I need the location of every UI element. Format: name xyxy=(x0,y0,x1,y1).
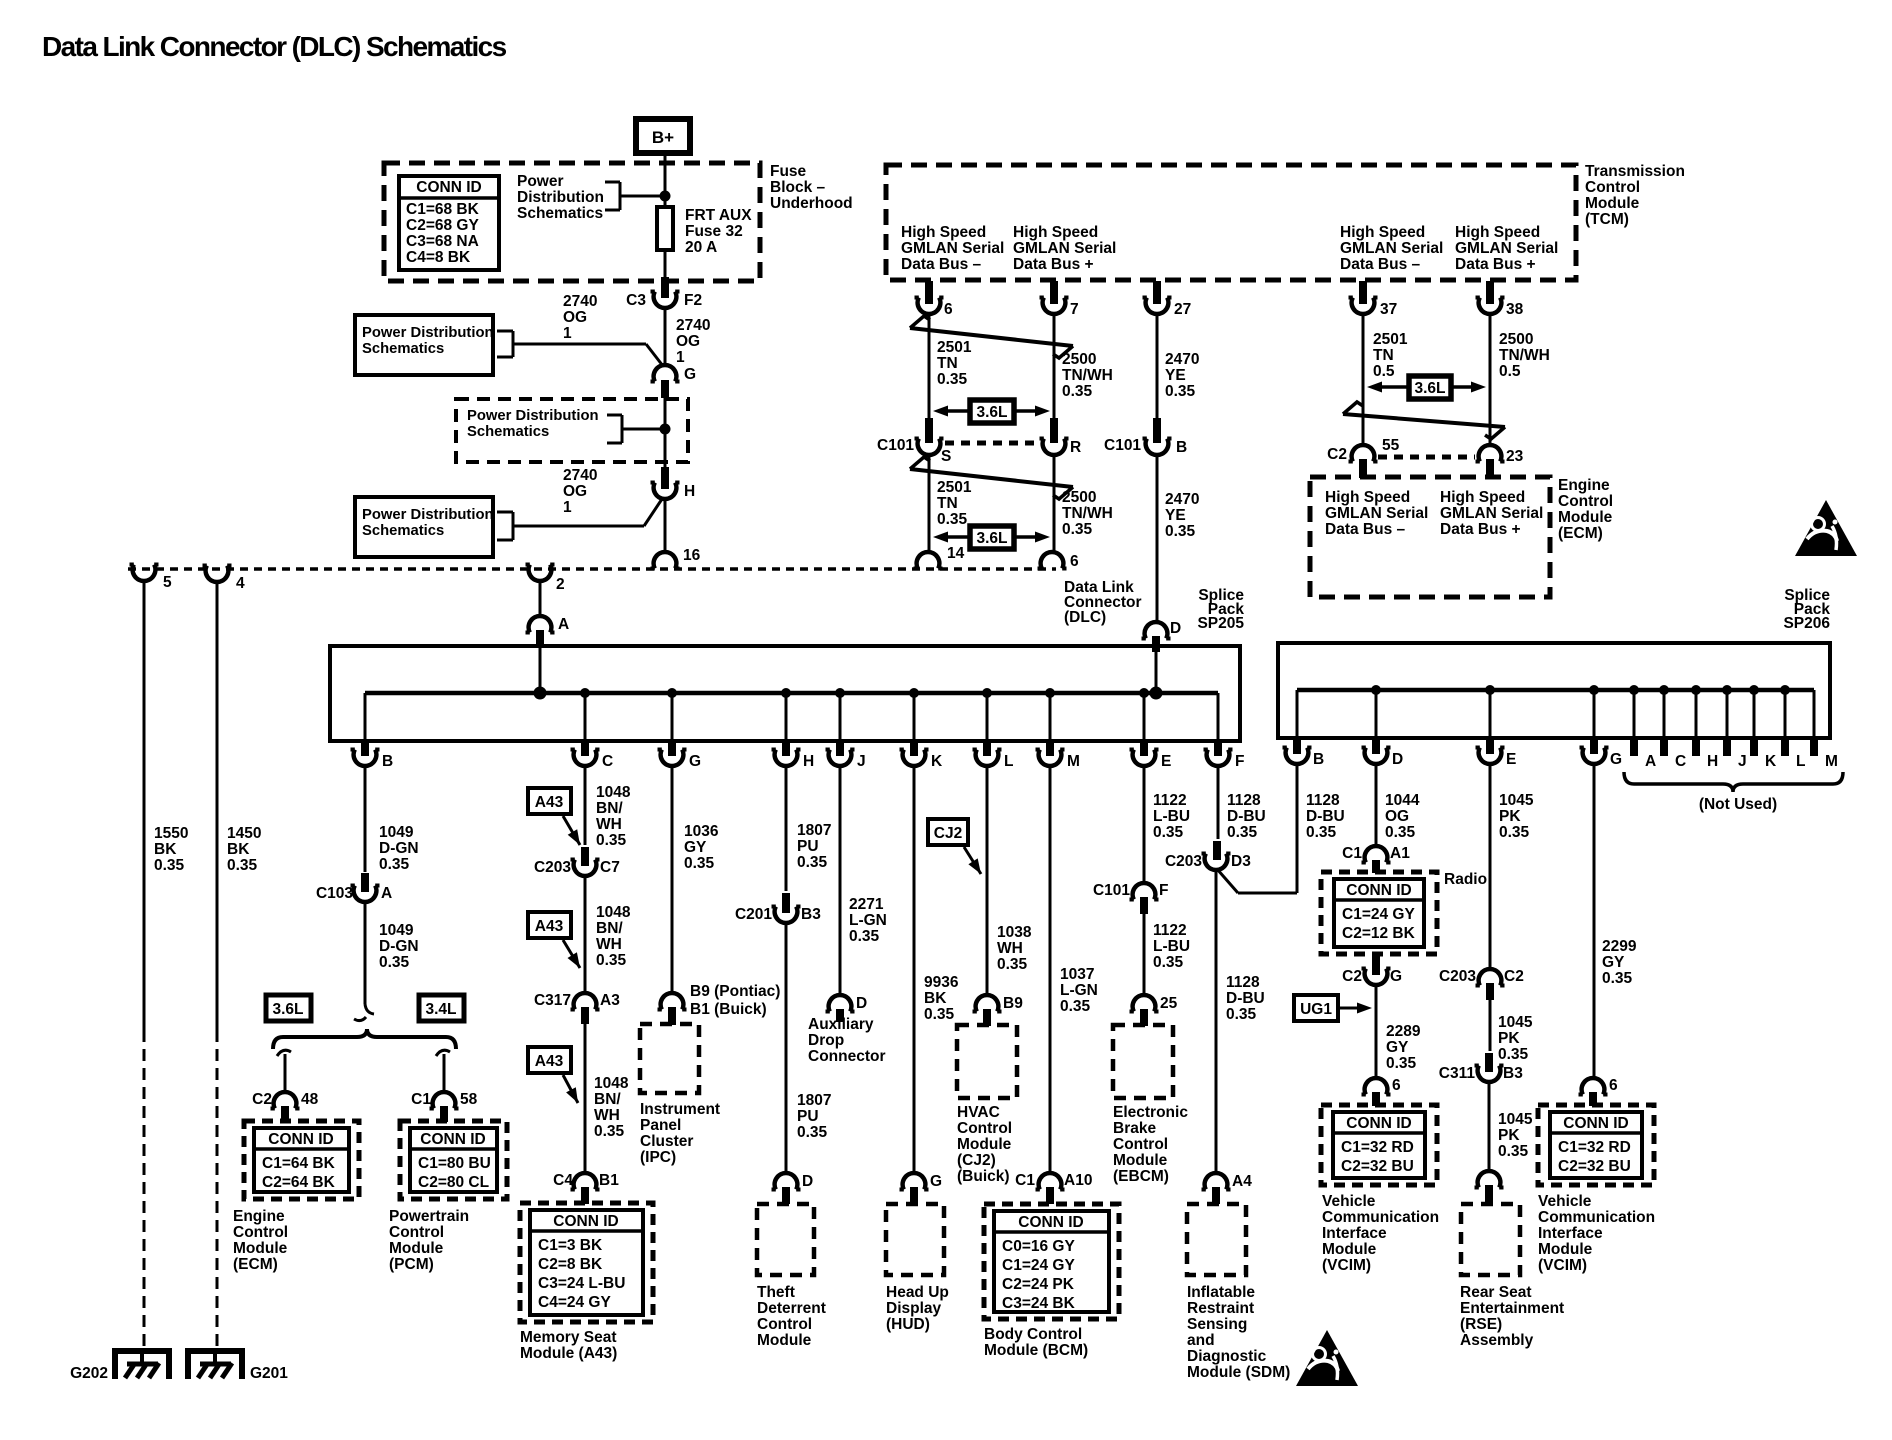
svg-text:C2: C2 xyxy=(1504,968,1524,985)
connector C2 pin 55 xyxy=(1327,437,1399,463)
svg-text:3.6L: 3.6L xyxy=(976,530,1007,547)
connector C101 pin S xyxy=(877,437,951,465)
C101 mating dashed line xyxy=(945,441,1040,446)
svg-text:0.35: 0.35 xyxy=(1498,1046,1529,1063)
connector G HUD xyxy=(900,1173,943,1204)
svg-text:Rear Seat: Rear Seat xyxy=(1460,1284,1532,1301)
svg-text:C0=16 GY: C0=16 GY xyxy=(1002,1238,1075,1255)
svg-text:C2: C2 xyxy=(252,1091,272,1108)
stub above C101 S xyxy=(925,418,933,443)
svg-text:9936: 9936 xyxy=(924,974,959,991)
svg-text:J: J xyxy=(857,753,866,770)
svg-text:0.35: 0.35 xyxy=(1060,998,1091,1015)
svg-text:Module: Module xyxy=(233,1240,288,1257)
SP205 pin H xyxy=(772,693,815,770)
svg-text:C2=32 BU: C2=32 BU xyxy=(1341,1158,1414,1175)
svg-text:C2=32 BU: C2=32 BU xyxy=(1558,1158,1631,1175)
svg-text:Entertainment: Entertainment xyxy=(1460,1300,1564,1317)
power distribution schematics dashed box xyxy=(456,399,688,462)
svg-text:B: B xyxy=(1313,751,1324,768)
connector C103 pin A xyxy=(316,885,392,902)
svg-text:0.35: 0.35 xyxy=(1165,383,1196,400)
splice pack SP206 bus bar xyxy=(1297,685,1814,695)
svg-text:1044: 1044 xyxy=(1385,792,1420,809)
svg-text:(TCM): (TCM) xyxy=(1585,211,1629,228)
svg-text:High Speed: High Speed xyxy=(1325,489,1410,506)
svg-text:C3=24 BK: C3=24 BK xyxy=(1002,1295,1076,1312)
svg-text:PK: PK xyxy=(1498,1030,1520,1047)
svg-text:C: C xyxy=(1675,753,1686,770)
wire label 1807 PU 0.35 b xyxy=(797,1092,831,1141)
svg-text:0.35: 0.35 xyxy=(924,1006,955,1023)
wire label 1038 WH 0.35 xyxy=(997,924,1032,973)
svg-text:CONN ID: CONN ID xyxy=(416,179,481,196)
svg-text:C311: C311 xyxy=(1439,1065,1476,1082)
wire D into SP205 xyxy=(1155,652,1158,693)
svg-text:L: L xyxy=(1796,753,1805,770)
svg-text:and: and xyxy=(1187,1332,1215,1349)
wire 1807 PU seg2 xyxy=(785,921,788,1174)
svg-text:G: G xyxy=(689,753,701,770)
wire 1037 L-GN xyxy=(1049,764,1052,1174)
connector C203 pin D3 xyxy=(1165,853,1251,870)
wire 1048 seg1 xyxy=(584,764,587,866)
svg-text:58: 58 xyxy=(460,1091,478,1108)
svg-text:Module: Module xyxy=(1322,1241,1377,1258)
wire label 2740 OG 1 left xyxy=(563,293,597,342)
svg-text:0.35: 0.35 xyxy=(997,956,1028,973)
svg-text:Transmission: Transmission xyxy=(1585,163,1685,180)
svg-text:1122: 1122 xyxy=(1153,922,1187,939)
svg-text:C2=24 PK: C2=24 PK xyxy=(1002,1276,1075,1293)
connector table memory seat xyxy=(520,1203,653,1322)
svg-text:Memory Seat: Memory Seat xyxy=(520,1329,616,1346)
svg-text:C2: C2 xyxy=(1327,446,1347,463)
svg-text:Inflatable: Inflatable xyxy=(1187,1284,1255,1301)
svg-text:(IPC): (IPC) xyxy=(640,1149,676,1166)
svg-text:C1: C1 xyxy=(411,1091,431,1108)
svg-text:(ECM): (ECM) xyxy=(1558,525,1603,542)
data link connector label xyxy=(1064,579,1142,626)
svg-text:OG: OG xyxy=(676,333,700,350)
svg-text:CONN ID: CONN ID xyxy=(1563,1115,1628,1132)
svg-text:Interface: Interface xyxy=(1538,1225,1603,1242)
svg-text:E: E xyxy=(1506,751,1516,768)
power distribution schematics box 1 xyxy=(355,315,494,375)
engine option box 3.6L b xyxy=(933,526,1050,549)
svg-text:2500: 2500 xyxy=(1499,331,1533,348)
powertrain control module (PCM) label xyxy=(389,1208,469,1273)
SP206 unused pin M xyxy=(1814,690,1838,770)
svg-text:1550: 1550 xyxy=(154,825,188,842)
wire 2271 L-GN xyxy=(839,764,842,996)
svg-text:Panel: Panel xyxy=(640,1117,681,1134)
svg-text:1038: 1038 xyxy=(997,924,1032,941)
svg-text:1128: 1128 xyxy=(1227,792,1261,809)
SP206 unused pin L xyxy=(1785,690,1805,770)
wire 1045 seg1 xyxy=(1489,762,1492,970)
twisted pair crossover 1 xyxy=(910,316,1073,358)
svg-text:Radio: Radio xyxy=(1444,871,1487,888)
splice pack SP206 label xyxy=(1783,587,1830,632)
wire 1045 seg2 xyxy=(1489,1000,1490,1072)
TCM bus + label 2 xyxy=(1013,224,1116,273)
connector D aux xyxy=(826,995,868,1022)
svg-text:Connector: Connector xyxy=(808,1048,886,1065)
svg-text:G: G xyxy=(930,1173,942,1190)
svg-text:(HUD): (HUD) xyxy=(886,1316,930,1333)
svg-text:D-BU: D-BU xyxy=(1306,808,1345,825)
svg-text:YE: YE xyxy=(1165,507,1186,524)
hvac control module dashed box xyxy=(957,1025,1017,1098)
svg-text:UG1: UG1 xyxy=(1300,1001,1332,1018)
svg-text:WH: WH xyxy=(596,936,622,953)
svg-text:1128: 1128 xyxy=(1226,974,1260,991)
svg-text:Schematics: Schematics xyxy=(467,424,549,440)
svg-text:0.35: 0.35 xyxy=(596,952,627,969)
svg-text:CONN ID: CONN ID xyxy=(553,1213,618,1230)
connector C101 pin F xyxy=(1093,882,1169,914)
engine option box 3.6L d xyxy=(266,995,311,1021)
svg-text:M: M xyxy=(1825,753,1838,770)
svg-text:CONN ID: CONN ID xyxy=(420,1131,485,1148)
svg-text:B1: B1 xyxy=(599,1172,619,1189)
svg-text:14: 14 xyxy=(947,545,965,562)
TCM pin 38 stub xyxy=(1486,281,1494,304)
SP206 unused pin K xyxy=(1754,690,1777,770)
svg-text:B: B xyxy=(382,753,393,770)
radio out stub xyxy=(1372,954,1380,975)
inflatable restraint dashed box xyxy=(1187,1204,1246,1275)
svg-text:OG: OG xyxy=(563,483,587,500)
EBCM label xyxy=(1113,1104,1188,1185)
wire label 2470 YE 0.35 b xyxy=(1165,491,1199,540)
svg-text:PU: PU xyxy=(797,838,819,855)
TCM pin 37 stub xyxy=(1359,281,1367,304)
svg-text:High Speed: High Speed xyxy=(1340,224,1425,241)
svg-text:G: G xyxy=(1390,968,1402,985)
svg-text:C101: C101 xyxy=(1093,882,1130,899)
wire label 1122 L-BU 0.35 b xyxy=(1153,922,1190,971)
svg-text:0.35: 0.35 xyxy=(227,857,258,874)
svg-text:3.6L: 3.6L xyxy=(1414,380,1445,397)
svg-text:D: D xyxy=(802,1173,813,1190)
svg-text:Schematics: Schematics xyxy=(517,205,603,222)
svg-text:C4: C4 xyxy=(553,1172,573,1189)
svg-text:1: 1 xyxy=(676,349,685,366)
TCM bus + label 4 xyxy=(1455,224,1558,273)
engine control module (ECM) label xyxy=(233,1208,288,1273)
wire fuse to C3 xyxy=(664,250,667,298)
svg-text:PU: PU xyxy=(797,1108,819,1125)
engine option box 3.4L xyxy=(419,995,464,1021)
connector B9 HVAC xyxy=(973,995,1024,1026)
svg-text:C2: C2 xyxy=(1342,968,1362,985)
svg-text:1045: 1045 xyxy=(1499,792,1534,809)
svg-text:H: H xyxy=(684,483,695,500)
wire label 2271 L-GN 0.35 xyxy=(849,896,887,945)
svg-text:C1: C1 xyxy=(1015,1172,1035,1189)
engine option box 3.6L a xyxy=(933,400,1050,423)
wire label 1128 D-BU 0.35 B xyxy=(1306,792,1345,841)
svg-text:3.4L: 3.4L xyxy=(425,1001,456,1018)
svg-text:0.35: 0.35 xyxy=(1306,824,1337,841)
SP206 unused pin A xyxy=(1634,690,1656,770)
svg-text:High Speed: High Speed xyxy=(1440,489,1525,506)
svg-text:CJ2: CJ2 xyxy=(934,825,962,842)
connector C1 pin 58 xyxy=(411,1091,477,1122)
wire label 2740 OG 1 lower xyxy=(563,467,597,516)
svg-text:1122: 1122 xyxy=(1153,792,1187,809)
svg-text:2470: 2470 xyxy=(1165,491,1199,508)
bracket box1 to wire xyxy=(497,331,663,366)
svg-text:D: D xyxy=(1170,620,1181,637)
svg-text:J: J xyxy=(1738,753,1747,770)
connector C2 pin 48 xyxy=(252,1091,318,1122)
not used label xyxy=(1699,796,1777,813)
svg-text:2740: 2740 xyxy=(563,467,597,484)
svg-text:C1=24 GY: C1=24 GY xyxy=(1002,1257,1075,1274)
wire 2299 GY xyxy=(1593,762,1596,1079)
svg-text:1048: 1048 xyxy=(596,904,631,921)
connector C203 pin C7 xyxy=(534,859,620,876)
svg-text:S: S xyxy=(941,448,951,465)
HVAC label xyxy=(957,1104,1012,1185)
wire 1048 seg3 xyxy=(584,1024,587,1174)
connector D theft xyxy=(772,1173,814,1204)
svg-text:C2=64 BK: C2=64 BK xyxy=(262,1174,336,1191)
svg-text:Power Distribution: Power Distribution xyxy=(362,325,494,341)
svg-text:GMLAN Serial: GMLAN Serial xyxy=(1440,505,1543,522)
svg-text:C1=32 RD: C1=32 RD xyxy=(1558,1139,1631,1156)
fuse block label xyxy=(770,163,853,212)
svg-text:2501: 2501 xyxy=(937,479,972,496)
svg-text:C4=8 BK: C4=8 BK xyxy=(406,249,471,266)
auxiliary drop connector label xyxy=(808,1016,886,1065)
connector table VCIM b xyxy=(1538,1105,1654,1185)
svg-text:20 A: 20 A xyxy=(685,239,717,256)
SP206 unused pin C xyxy=(1664,690,1686,770)
svg-text:2740: 2740 xyxy=(676,317,710,334)
wire 2289 GY xyxy=(1375,983,1378,1079)
SP206 pin D xyxy=(1362,690,1404,768)
splice pack SP205 label xyxy=(1197,587,1244,632)
svg-text:Module (SDM): Module (SDM) xyxy=(1187,1364,1290,1381)
svg-text:1045: 1045 xyxy=(1498,1014,1533,1031)
HUD label xyxy=(886,1284,949,1333)
svg-text:B+: B+ xyxy=(652,128,674,147)
svg-text:0.35: 0.35 xyxy=(594,1123,625,1140)
svg-text:Data Bus +: Data Bus + xyxy=(1455,256,1536,273)
bracket box2 to wire xyxy=(497,499,662,540)
electronic brake control module dashed box xyxy=(1113,1025,1173,1098)
wire 2500 TNWH 0.5 xyxy=(1489,312,1492,447)
svg-text:C4=24 GY: C4=24 GY xyxy=(538,1294,611,1311)
svg-text:1036: 1036 xyxy=(684,823,719,840)
svg-text:2500: 2500 xyxy=(1062,489,1096,506)
svg-text:0.35: 0.35 xyxy=(937,511,968,528)
svg-text:Control: Control xyxy=(757,1316,812,1333)
svg-text:Module: Module xyxy=(1585,195,1640,212)
svg-text:G201: G201 xyxy=(250,1365,288,1382)
svg-text:0.35: 0.35 xyxy=(1385,824,1416,841)
SP206 unused pin J xyxy=(1727,690,1747,770)
svg-text:2: 2 xyxy=(556,576,565,593)
svg-text:Power: Power xyxy=(517,173,564,190)
svg-text:(CJ2): (CJ2) xyxy=(957,1152,996,1169)
svg-text:High Speed: High Speed xyxy=(1013,224,1098,241)
svg-text:5: 5 xyxy=(163,574,172,591)
svg-text:Engine: Engine xyxy=(1558,477,1610,494)
transmission control module dashed box xyxy=(886,165,1576,280)
title xyxy=(42,31,507,62)
wire label 1122 L-BU 0.35 a xyxy=(1153,792,1190,841)
connector table radio xyxy=(1321,872,1437,954)
wire label 1128 D-BU 0.35 a xyxy=(1227,792,1266,841)
svg-text:1045: 1045 xyxy=(1498,1111,1533,1128)
svg-text:C1=32 RD: C1=32 RD xyxy=(1341,1139,1414,1156)
svg-text:Instrument: Instrument xyxy=(640,1101,720,1118)
svg-text:0.35: 0.35 xyxy=(379,856,410,873)
ECM stub 55 xyxy=(1359,459,1367,478)
connector TCM pin 7 xyxy=(1040,298,1079,319)
svg-text:2271: 2271 xyxy=(849,896,884,913)
svg-text:C103: C103 xyxy=(316,885,353,902)
svg-text:B3: B3 xyxy=(1503,1065,1523,1082)
svg-text:K: K xyxy=(1765,753,1777,770)
svg-text:0.35: 0.35 xyxy=(1498,1143,1529,1160)
connector D splice feed xyxy=(1142,620,1182,652)
svg-text:Module (BCM): Module (BCM) xyxy=(984,1342,1088,1359)
ECM stub 23 xyxy=(1486,459,1494,478)
svg-text:B3: B3 xyxy=(801,906,821,923)
wire B+ to fuse xyxy=(664,153,667,207)
svg-text:D-GN: D-GN xyxy=(379,840,419,857)
twisted pair crossover 2 xyxy=(910,457,1073,499)
svg-text:H: H xyxy=(1707,753,1718,770)
radio label xyxy=(1444,871,1487,888)
svg-text:Module: Module xyxy=(757,1332,812,1349)
svg-text:GMLAN Serial: GMLAN Serial xyxy=(1325,505,1428,522)
fuse FRT AUX Fuse 32 20A xyxy=(657,207,752,256)
svg-text:(VCIM): (VCIM) xyxy=(1322,1257,1371,1274)
connector C201 pin B3 xyxy=(735,906,821,923)
svg-text:SP206: SP206 xyxy=(1783,615,1830,632)
svg-text:H: H xyxy=(803,753,814,770)
svg-text:2289: 2289 xyxy=(1386,1023,1421,1040)
wire 9936 BK xyxy=(913,764,916,1174)
wire 2500 TNWH seg2 xyxy=(1053,453,1056,552)
connector C317 pin A3 xyxy=(534,992,620,1024)
svg-text:Block –: Block – xyxy=(770,179,826,196)
wire label 1049 D-GN 0.35 a xyxy=(379,824,419,873)
svg-text:BK: BK xyxy=(154,841,177,858)
connector DLC pin 2 xyxy=(526,565,565,594)
svg-text:BN/: BN/ xyxy=(596,800,623,817)
svg-text:0.35: 0.35 xyxy=(684,855,715,872)
svg-text:3.6L: 3.6L xyxy=(976,404,1007,421)
wire label 2501 TN 0.5 xyxy=(1373,331,1408,380)
svg-text:16: 16 xyxy=(683,547,701,564)
ECM module label xyxy=(1558,477,1613,542)
svg-text:PK: PK xyxy=(1499,808,1521,825)
svg-text:(VCIM): (VCIM) xyxy=(1538,1257,1587,1274)
callout box A43 a xyxy=(528,788,580,845)
ground G202 xyxy=(70,1348,169,1382)
SP205 pin F xyxy=(1204,693,1245,770)
srs caution triangle bottom xyxy=(1296,1330,1358,1386)
svg-text:Body Control: Body Control xyxy=(984,1326,1082,1343)
TCM pin 27 stub xyxy=(1153,281,1161,304)
svg-text:1807: 1807 xyxy=(797,822,831,839)
connector table BCM xyxy=(984,1204,1119,1319)
svg-text:GMLAN Serial: GMLAN Serial xyxy=(1340,240,1443,257)
svg-text:0.35: 0.35 xyxy=(596,832,627,849)
svg-text:C3=68 NA: C3=68 NA xyxy=(406,233,479,250)
svg-text:B: B xyxy=(1176,439,1187,456)
wire 1048 seg2 xyxy=(584,874,587,994)
svg-text:Interface: Interface xyxy=(1322,1225,1387,1242)
srs caution triangle right xyxy=(1795,500,1857,556)
svg-text:(ECM): (ECM) xyxy=(233,1256,278,1273)
ground G201 xyxy=(188,1348,288,1382)
wire 2501 TN seg1 xyxy=(928,312,931,422)
svg-text:Schematics: Schematics xyxy=(362,341,444,357)
svg-text:Diagnostic: Diagnostic xyxy=(1187,1348,1267,1365)
svg-text:Data Bus –: Data Bus – xyxy=(1340,256,1420,273)
connector C1 pin A10 xyxy=(1015,1172,1092,1204)
callout box A43 c xyxy=(528,1047,578,1103)
svg-text:Theft: Theft xyxy=(757,1284,795,1301)
svg-text:L-BU: L-BU xyxy=(1153,938,1190,955)
svg-text:Assembly: Assembly xyxy=(1460,1332,1534,1349)
svg-text:SP205: SP205 xyxy=(1197,615,1244,632)
connector C311 pin B3 xyxy=(1439,1065,1523,1082)
wire 1049 D-GN seg2 xyxy=(354,900,374,1021)
connector DLC pin 16 xyxy=(651,547,701,569)
svg-text:(PCM): (PCM) xyxy=(389,1256,434,1273)
svg-text:C2=8 BK: C2=8 BK xyxy=(538,1256,603,1273)
callout box UG1 xyxy=(1294,995,1372,1021)
rear seat entertainment dashed box xyxy=(1461,1204,1520,1275)
connector C3 pin F2 xyxy=(626,292,702,310)
TCM pin 6 stub xyxy=(925,281,933,304)
svg-text:D3: D3 xyxy=(1231,853,1251,870)
splice pack SP206 outer box xyxy=(1278,643,1830,738)
svg-text:Module: Module xyxy=(1558,509,1613,526)
svg-text:A43: A43 xyxy=(535,794,564,811)
svg-text:0.35: 0.35 xyxy=(849,928,880,945)
svg-text:L-GN: L-GN xyxy=(849,912,887,929)
svg-text:Module: Module xyxy=(389,1240,444,1257)
fuse block underhood dashed box xyxy=(384,163,760,281)
svg-text:TN/WH: TN/WH xyxy=(1062,505,1113,522)
wire label 2289 GY 0.35 xyxy=(1386,1023,1421,1072)
svg-text:0.35: 0.35 xyxy=(797,854,828,871)
wire 1128 seg2 xyxy=(1215,869,1218,1174)
svg-text:C2=68 GY: C2=68 GY xyxy=(406,217,479,234)
wire label 1550 BK 0.35 xyxy=(154,825,188,874)
wire label 2470 YE 0.35 a xyxy=(1165,351,1199,400)
svg-text:48: 48 xyxy=(301,1091,319,1108)
svg-text:0.35: 0.35 xyxy=(937,371,968,388)
TCM label xyxy=(1585,163,1685,228)
wire 1122 seg2 xyxy=(1143,914,1146,996)
svg-text:F2: F2 xyxy=(684,292,702,309)
svg-text:E: E xyxy=(1161,753,1171,770)
TCM bus - label 3 xyxy=(1340,224,1443,273)
svg-text:A1: A1 xyxy=(1390,845,1410,862)
